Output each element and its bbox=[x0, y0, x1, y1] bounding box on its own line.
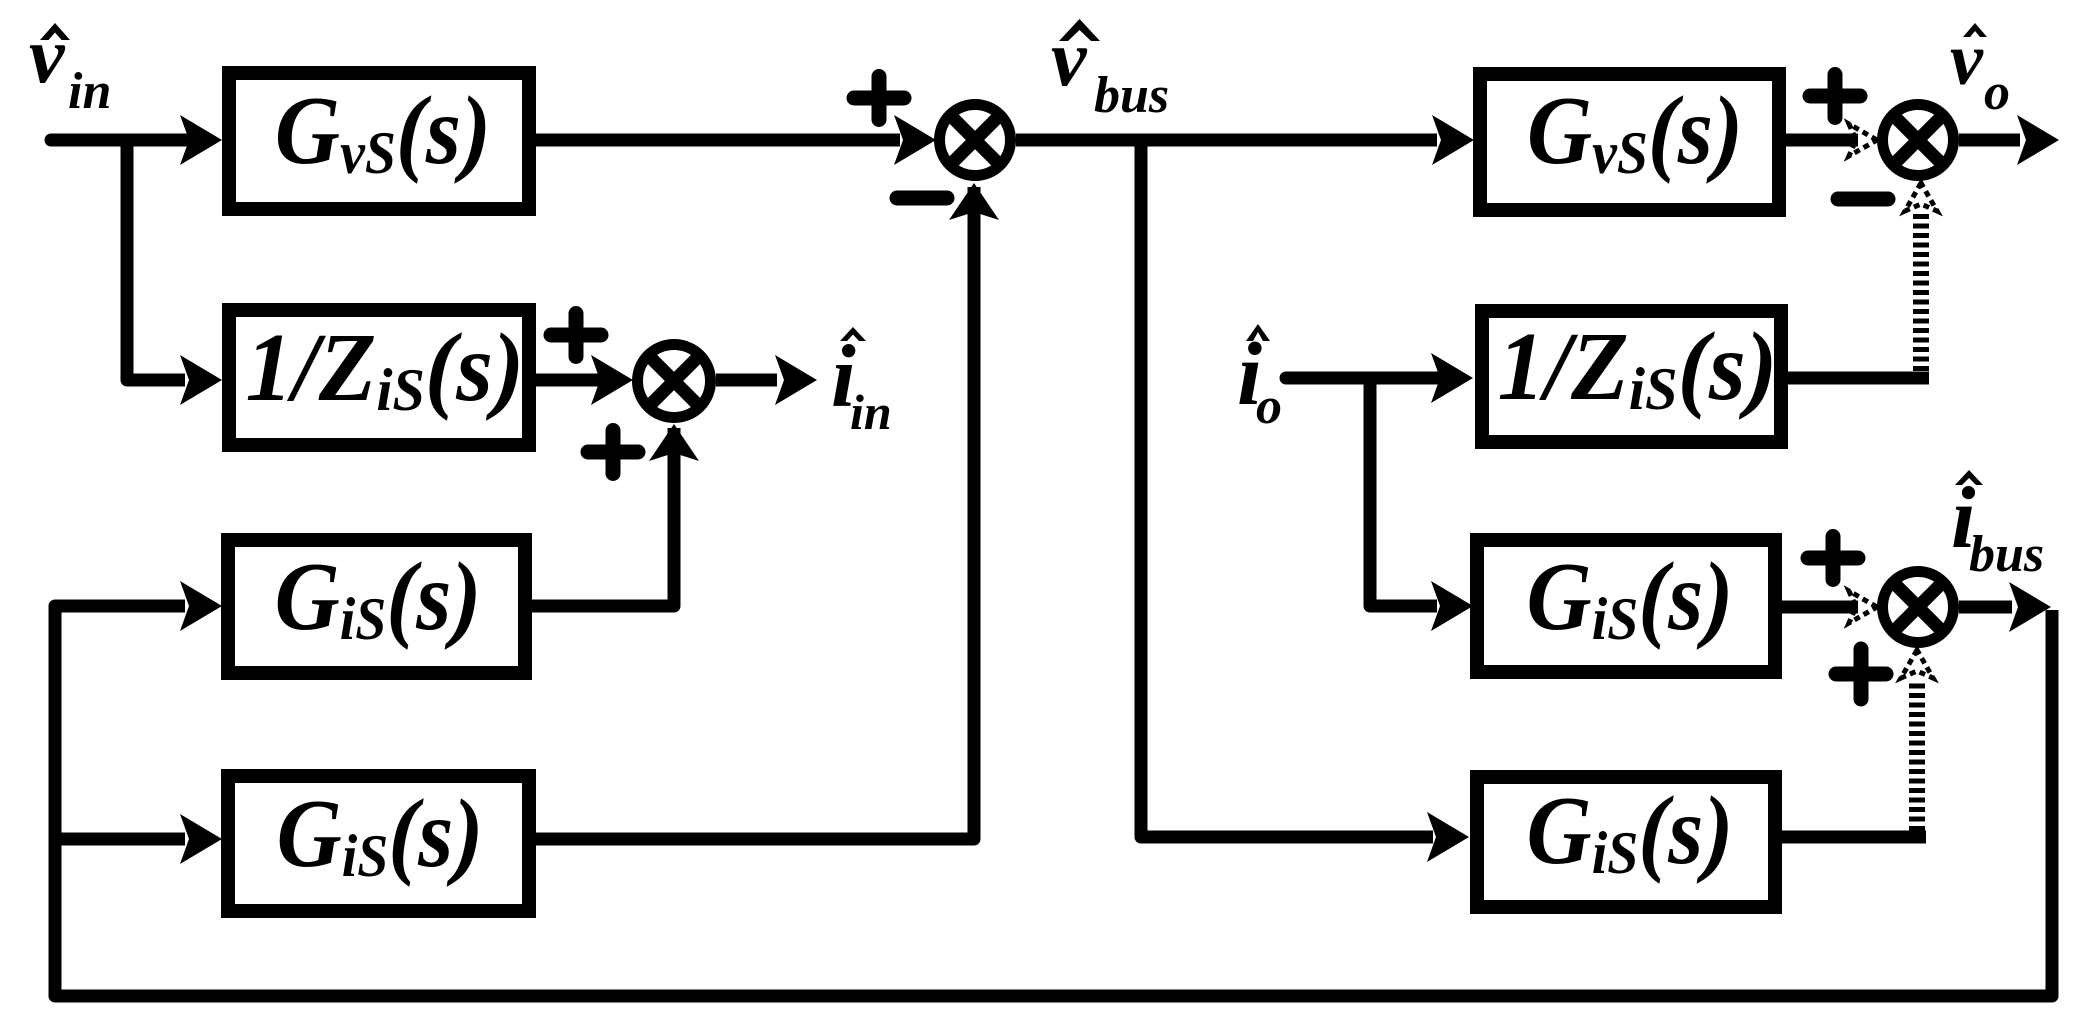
arrowhead vo output bbox=[2017, 115, 2059, 165]
block GiS4 bbox=[228, 776, 529, 911]
wire vin branch down to 1/ZiS bbox=[127, 140, 185, 380]
node vbus label bbox=[1051, 15, 1169, 124]
wire GiS3 output up to J2 bbox=[531, 428, 674, 606]
block GiS5 bbox=[1477, 540, 1775, 672]
node vo label bbox=[1950, 19, 2010, 121]
plus below J2 bbox=[588, 431, 638, 474]
wire J3 output to vo bbox=[1959, 134, 2020, 147]
svg-text:1/ZiS(s): 1/ZiS(s) bbox=[1498, 313, 1778, 422]
wire J2 output to iin bbox=[716, 374, 777, 387]
wire GvS1 output to sum J1 bbox=[535, 134, 900, 147]
arrowhead into J1 from below bbox=[949, 183, 999, 220]
minus at J1 bbox=[897, 191, 947, 206]
svg-text:1/ZiS(s): 1/ZiS(s) bbox=[246, 314, 525, 423]
node io label bbox=[1237, 324, 1282, 435]
summing junction J3 bbox=[1883, 105, 1954, 176]
svg-text:GvS(s): GvS(s) bbox=[275, 78, 491, 186]
block GvS1 bbox=[229, 73, 529, 209]
svg-text:o: o bbox=[1256, 378, 1282, 435]
svg-text:GiS(s): GiS(s) bbox=[1527, 778, 1734, 886]
svg-text:v: v bbox=[29, 12, 66, 100]
block GiS3 bbox=[228, 540, 525, 673]
plus at J1 bbox=[854, 77, 904, 120]
wire GiS4 input bbox=[55, 833, 185, 846]
node vin label bbox=[29, 12, 111, 120]
arrowhead into J2 from below bbox=[649, 424, 699, 461]
plus at J4 bbox=[1808, 537, 1858, 580]
arrowhead into GiS4 bbox=[180, 814, 222, 864]
wire GiS6 output to dotted riser bbox=[1781, 831, 1926, 844]
dashed arrowhead into J4 from below bbox=[1901, 650, 1933, 678]
dashed arrowhead into J3 from below bbox=[1905, 183, 1937, 211]
svg-text:GiS(s): GiS(s) bbox=[277, 781, 484, 889]
wire 1/ZiS2 output to dotted riser bbox=[1787, 372, 1929, 385]
arrowhead into 1/ZiS2 bbox=[1431, 353, 1473, 403]
svg-text:bus: bus bbox=[1094, 67, 1169, 124]
wire io branch down to GiS5 bbox=[1370, 378, 1437, 606]
wire vin input bbox=[51, 134, 185, 147]
wire io input bbox=[1286, 372, 1437, 385]
svg-text:bus: bus bbox=[1969, 526, 2044, 583]
block GvS2 bbox=[1480, 74, 1779, 210]
svg-text:o: o bbox=[1984, 64, 2010, 121]
summing junction J2 bbox=[638, 345, 711, 418]
minus at J3 bbox=[1838, 192, 1888, 207]
arrowhead into GiS5 bbox=[1431, 581, 1473, 631]
wire feedback left vertical and bottom bbox=[55, 606, 2052, 996]
wire GiS5 output toward J4 bbox=[1781, 601, 1858, 614]
arrowhead iin output bbox=[775, 355, 817, 405]
dashed arrowhead into J4 from left bbox=[1849, 591, 1877, 623]
wire GiS4 output up to J1 bbox=[535, 187, 974, 839]
arrowhead into J1 bbox=[894, 115, 936, 165]
summing junction J1 bbox=[940, 105, 1011, 176]
block 1/ZiS2 bbox=[1482, 311, 1781, 442]
block 1/ZiS1 bbox=[229, 310, 529, 445]
arrowhead into J2 bbox=[591, 355, 633, 405]
svg-text:in: in bbox=[850, 384, 892, 440]
arrowhead into GvS2 bbox=[1432, 115, 1474, 165]
plus above J2 input bbox=[551, 314, 601, 357]
dotted riser 1/ZiS2 up to J3 bbox=[1913, 213, 1929, 371]
block GiS6 bbox=[1477, 777, 1775, 907]
arrowhead into GiS6 bottom right bbox=[1427, 812, 1469, 862]
node iin label bbox=[831, 327, 892, 440]
wire vbus branch down to bottom-right GiS bbox=[1141, 140, 1433, 837]
node ibus label bbox=[1951, 470, 2044, 583]
dashed arrowhead into J3 from left bbox=[1849, 124, 1877, 156]
plus at J3 bbox=[1810, 75, 1860, 118]
wire GvS2 output toward J3 bbox=[1785, 134, 1858, 147]
svg-text:in: in bbox=[68, 63, 111, 120]
svg-text:GvS(s): GvS(s) bbox=[1527, 78, 1743, 186]
plus below J4 bbox=[1836, 649, 1886, 699]
wire J4 output to ibus bbox=[1959, 601, 2012, 614]
arrowhead into 1/ZiS1 bbox=[180, 355, 222, 405]
arrowhead into GvS1 bbox=[180, 115, 222, 165]
arrowhead ibus output bbox=[2009, 582, 2051, 632]
summing junction J4 bbox=[1883, 572, 1954, 643]
wire J1 to GvS2 (vbus line) bbox=[1016, 134, 1437, 147]
arrowhead into GiS3 bbox=[180, 581, 222, 631]
svg-text:GiS(s): GiS(s) bbox=[275, 544, 482, 652]
dotted riser GiS6 up to J4 bbox=[1909, 681, 1925, 831]
svg-text:GiS(s): GiS(s) bbox=[1527, 544, 1734, 652]
wire 1/ZiS1 output to sum J2 bbox=[536, 374, 600, 387]
